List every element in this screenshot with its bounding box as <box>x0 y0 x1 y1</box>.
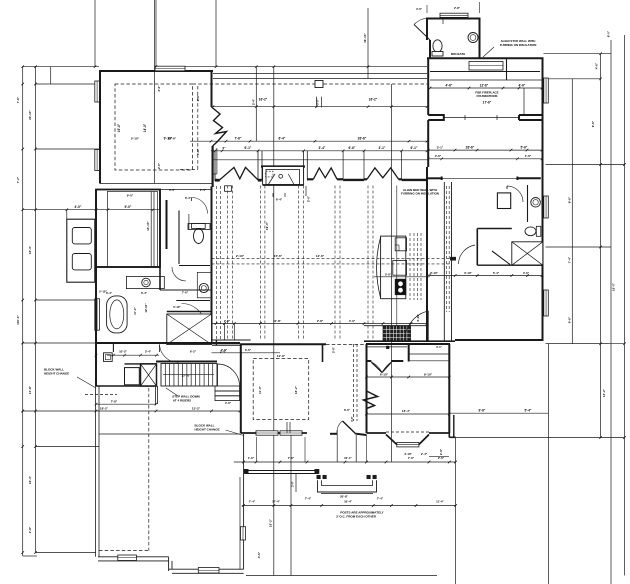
angled wall break zigzag <box>212 107 227 146</box>
svg-text:3'-0": 3'-0" <box>316 98 320 105</box>
dining right wall <box>322 344 324 362</box>
right tick y247 <box>546 246 612 248</box>
range hatched <box>383 326 410 342</box>
svg-text:16'-10": 16'-10" <box>363 33 367 43</box>
left margin tick y149 <box>36 148 100 150</box>
mud dashed roofline <box>85 394 117 396</box>
svg-text:10'-1": 10'-1" <box>344 456 352 460</box>
svg-text:2'-10": 2'-10" <box>236 254 245 258</box>
grid line top v4 <box>367 8 369 79</box>
svg-text:100'-4": 100'-4" <box>16 315 20 325</box>
mbath shelf <box>188 224 210 230</box>
svg-text:15'-2": 15'-2" <box>192 407 201 411</box>
svg-text:2'-0": 2'-0" <box>291 480 295 486</box>
gr dim row y323 <box>212 323 428 325</box>
bay window <box>386 435 397 445</box>
kitchen dashed cabinets <box>409 233 411 300</box>
eave line 1 <box>213 73 427 75</box>
mud cell walls <box>125 363 157 365</box>
svg-text:2'-6": 2'-6" <box>438 456 445 460</box>
top wall window <box>155 66 185 71</box>
fireplace <box>261 165 305 167</box>
band window 1 <box>215 179 220 182</box>
svg-text:4'-1": 4'-1" <box>436 345 443 349</box>
stair arrow <box>163 374 214 376</box>
dim row y141 <box>190 140 427 142</box>
bed2 door arc 2 <box>458 245 475 264</box>
kitchen sink box <box>395 238 406 251</box>
svg-text:11'-4": 11'-4" <box>436 500 444 504</box>
bath2 toilet <box>536 226 541 236</box>
svg-text:2'-4": 2'-4" <box>421 452 428 456</box>
patio right window <box>241 527 246 540</box>
svg-text:2'-4": 2'-4" <box>252 98 256 105</box>
bottom-right v grid 1 <box>455 438 457 584</box>
svg-text:9'-6": 9'-6" <box>591 120 595 127</box>
bath2 walls L <box>477 228 512 230</box>
joist dashed pair B <box>259 186 261 341</box>
right wing bottom wall ext <box>546 343 609 345</box>
svg-text:10'-8": 10'-8" <box>273 319 281 323</box>
small steps <box>215 386 240 391</box>
svg-text:6'-4": 6'-4" <box>185 196 192 200</box>
svg-text:HEIGHT CHANGE: HEIGHT CHANGE <box>44 371 69 375</box>
top-left room bottom dbl <box>100 183 212 185</box>
bed2 closet <box>497 193 510 209</box>
porch step outer <box>318 480 377 492</box>
svg-text:3'-4": 3'-4" <box>319 146 326 150</box>
patio left wall <box>95 386 97 557</box>
svg-text:9'-0": 9'-0" <box>125 205 132 209</box>
left margin tick y411 <box>23 410 240 412</box>
right margin edge line <box>624 35 626 576</box>
svg-text:16'-0": 16'-0" <box>117 123 121 132</box>
svg-text:9'-0": 9'-0" <box>127 194 134 198</box>
grid line top v3 <box>215 0 217 67</box>
bay dim <box>429 456 449 458</box>
svg-text:3'-4": 3'-4" <box>220 349 227 353</box>
wall seg left of door <box>330 433 338 435</box>
mbath vanity <box>126 276 164 288</box>
top-left room left wall <box>99 70 101 184</box>
left wall x96 lower <box>95 190 97 344</box>
bottom v dim 2 <box>290 434 292 576</box>
oven cabinet <box>67 219 95 282</box>
svg-text:8'-6": 8'-6" <box>568 196 572 203</box>
svg-text:9'-6": 9'-6" <box>568 316 572 323</box>
svg-text:5'-10": 5'-10" <box>173 305 181 309</box>
right tick y164 <box>546 164 625 166</box>
svg-text:2'-0": 2'-0" <box>439 448 443 455</box>
svg-text:3'-6": 3'-6" <box>245 348 252 352</box>
left margin tick y446 <box>36 446 100 448</box>
svg-text:FOUNDATIONS: FOUNDATIONS <box>477 94 498 98</box>
door diagonal patio <box>343 421 357 434</box>
great room dashed h pair <box>212 258 453 260</box>
svg-text:HEIGHT CHANGE: HEIGHT CHANGE <box>195 428 220 432</box>
wing stub wall left y115 <box>428 115 444 120</box>
svg-text:10'-8": 10'-8" <box>28 385 32 394</box>
nook left zigzag <box>364 391 378 409</box>
svg-text:4'-10": 4'-10" <box>416 313 420 321</box>
svg-text:15'-6": 15'-6" <box>168 137 177 141</box>
svg-text:5'-4": 5'-4" <box>493 271 500 275</box>
svg-text:12'-6": 12'-6" <box>480 84 489 88</box>
svg-text:3' O.C. FROM EACH OTHER: 3' O.C. FROM EACH OTHER <box>336 515 377 519</box>
post square on roofline <box>315 81 323 88</box>
porch v dim <box>295 474 297 493</box>
left margin tick y208 <box>23 209 67 211</box>
svg-text:5'-10": 5'-10" <box>131 137 140 141</box>
left margin tick y552 <box>36 552 97 554</box>
left margin dim line A <box>22 66 24 556</box>
note leader line <box>483 47 494 57</box>
svg-text:2'-4": 2'-4" <box>200 188 207 192</box>
svg-text:3'-4": 3'-4" <box>145 349 152 353</box>
svg-text:14'-2": 14'-2" <box>602 388 606 397</box>
svg-text:7'-4": 7'-4" <box>249 500 256 504</box>
kitchen box 2 <box>393 261 407 276</box>
svg-text:7'-6": 7'-6" <box>408 456 415 460</box>
top dim line y66 extension <box>156 66 427 68</box>
joist dashed pair A <box>227 186 229 341</box>
tub window <box>95 299 100 331</box>
svg-text:7'-2": 7'-2" <box>16 176 20 183</box>
top-left dashed ceiling box <box>115 84 193 170</box>
nook dashed bay line <box>386 431 429 433</box>
svg-text:6'-10": 6'-10" <box>380 373 389 377</box>
wing stub thin lines <box>444 117 519 119</box>
mbath door arc <box>182 303 206 325</box>
band wall right <box>402 179 428 181</box>
stair door arc <box>217 364 219 386</box>
svg-text:4'-6": 4'-6" <box>435 154 442 158</box>
right wing right wall <box>542 58 544 341</box>
svg-text:4'-6": 4'-6" <box>225 401 232 405</box>
svg-text:17'-4": 17'-4" <box>272 500 280 504</box>
wing stub wall right y177 <box>517 177 540 179</box>
stair top wall <box>156 361 217 363</box>
svg-text:7'-6": 7'-6" <box>288 456 295 460</box>
svg-text:6'-4": 6'-4" <box>276 198 283 202</box>
svg-text:16'-4": 16'-4" <box>28 475 32 484</box>
oven dim row <box>67 209 160 211</box>
svg-text:6'-0": 6'-0" <box>344 408 351 412</box>
svg-text:19'-0": 19'-0" <box>265 221 269 230</box>
right wing left wall mid <box>427 120 429 167</box>
bath2 shower xbox <box>512 242 543 265</box>
svg-text:2'-8": 2'-8" <box>28 526 32 533</box>
svg-text:16'-2": 16'-2" <box>269 518 273 527</box>
right wall window 2 <box>544 196 549 218</box>
svg-text:8'-0": 8'-0" <box>607 30 611 37</box>
svg-text:5'-0": 5'-0" <box>385 272 392 276</box>
svg-text:5'-6": 5'-6" <box>521 146 528 150</box>
mud cell 1 <box>125 368 140 385</box>
svg-text:10'-2": 10'-2" <box>119 349 127 353</box>
nook top wall <box>366 343 450 345</box>
right wall window 1 <box>544 78 549 103</box>
svg-text:6'-6": 6'-6" <box>349 146 356 150</box>
corridor wall lower <box>212 344 241 346</box>
wing dim row y150 <box>428 149 542 151</box>
patio inner dashed v <box>148 388 150 551</box>
3rd bath left wall <box>429 40 431 59</box>
v dim line x197 dashed <box>197 86 199 170</box>
closet inner vline <box>150 192 152 266</box>
svg-text:16'-2": 16'-2" <box>259 98 268 102</box>
patio bottom window <box>118 555 137 561</box>
dining windows <box>256 431 278 435</box>
svg-text:12'-6": 12'-6" <box>316 254 325 258</box>
bath2 door diag <box>492 251 510 265</box>
svg-text:16'-2": 16'-2" <box>294 385 298 394</box>
kitchen curved counter <box>377 237 381 298</box>
svg-text:13'-10": 13'-10" <box>146 221 150 231</box>
upper mid hline y106 <box>213 106 427 108</box>
svg-text:16'-0": 16'-0" <box>612 282 616 291</box>
dim row y462 <box>234 461 456 463</box>
dining top wall <box>240 343 326 345</box>
svg-text:23'-10": 23'-10" <box>28 110 32 120</box>
hall door arc right <box>405 311 428 341</box>
svg-text:FURRING ON INSULATION: FURRING ON INSULATION <box>401 192 439 196</box>
wing hall dashed pair <box>446 186 448 312</box>
wing dim row y275 <box>427 275 542 277</box>
porch rail upper <box>245 470 318 472</box>
svg-text:2'-8": 2'-8" <box>224 319 231 323</box>
right margin dim line B <box>600 54 602 438</box>
wing closet wall <box>430 71 540 73</box>
grid through room <box>154 0 156 184</box>
right tick y53 <box>544 53 612 55</box>
mud entry door arc <box>159 345 161 353</box>
top-left room top wall <box>99 70 213 72</box>
band jamb 2 <box>257 151 259 181</box>
band window 2 <box>307 178 313 180</box>
joist dashed pair C <box>298 186 300 341</box>
porch post left <box>244 469 248 473</box>
closet xbox <box>167 314 212 345</box>
svg-text:15'-6": 15'-6" <box>274 254 283 258</box>
3rd bath window top <box>440 13 468 17</box>
svg-text:2'-0": 2'-0" <box>157 162 161 169</box>
mud left wall <box>95 343 97 386</box>
svg-text:13'-10": 13'-10" <box>181 374 191 378</box>
wing hline y80 <box>430 79 542 81</box>
svg-text:17'-4": 17'-4" <box>133 307 137 315</box>
patio bottom wall <box>98 556 169 558</box>
bed2 door arc 1 <box>501 185 523 187</box>
svg-text:3'-4": 3'-4" <box>169 188 176 192</box>
left wall window 1 <box>95 81 100 102</box>
svg-text:26'-6": 26'-6" <box>466 146 475 150</box>
mud inner vwall <box>112 343 114 352</box>
svg-text:12'-10": 12'-10" <box>144 303 148 313</box>
svg-text:AT 4 RISERS: AT 4 RISERS <box>173 398 191 402</box>
dining bottom wall <box>241 432 307 434</box>
svg-text:7'-6": 7'-6" <box>16 96 20 103</box>
kitchen island rect <box>381 236 406 299</box>
bottom-right v grid 2 <box>548 344 550 584</box>
bottom long line <box>246 575 437 577</box>
svg-text:4'-6": 4'-6" <box>595 62 599 69</box>
svg-text:7'-6": 7'-6" <box>235 137 242 141</box>
svg-text:7'-4": 7'-4" <box>568 256 572 263</box>
left margin bottom tick <box>23 555 37 557</box>
svg-text:4'-6": 4'-6" <box>257 551 261 558</box>
top-left room right wall <box>211 71 213 107</box>
grid line top v2 <box>155 0 157 67</box>
svg-text:7'-8": 7'-8" <box>111 399 118 403</box>
3rd bath door leaf <box>414 25 430 41</box>
left margin tick y84 <box>36 83 100 85</box>
right wing bottom wall <box>455 339 544 341</box>
svg-text:3'-1": 3'-1" <box>379 146 386 150</box>
dining dashed ceiling <box>253 359 309 420</box>
nook post y347 <box>387 346 389 348</box>
svg-text:6'-1": 6'-1" <box>411 146 418 150</box>
right margin dim line C <box>610 40 612 584</box>
patio inner dashed h <box>99 550 149 552</box>
washer box <box>104 353 113 362</box>
band window 3 <box>364 178 367 180</box>
band left jamb <box>212 146 214 187</box>
svg-text:2'-8": 2'-8" <box>317 319 324 323</box>
left margin dim line B <box>35 66 37 553</box>
svg-text:20'-8": 20'-8" <box>340 495 348 499</box>
svg-text:11'-0": 11'-0" <box>258 385 262 394</box>
porch post pair 2 <box>367 475 371 479</box>
bath2 left wall <box>527 185 529 222</box>
bottom v dim 1 <box>273 420 275 576</box>
post small below band <box>225 186 232 192</box>
dashed wall to nook <box>326 344 366 346</box>
mbath walls y268 <box>96 266 160 268</box>
svg-text:5'-10": 5'-10" <box>99 290 107 294</box>
right wall window 3 <box>544 290 549 316</box>
joist dashed pair E <box>367 186 369 341</box>
3rd bath walls <box>427 19 480 59</box>
svg-text:9'-10": 9'-10" <box>424 373 433 377</box>
right wing left wall upper <box>427 59 429 115</box>
patio step wall <box>168 557 170 571</box>
svg-text:2'-8": 2'-8" <box>454 6 461 10</box>
svg-text:3'-10": 3'-10" <box>464 271 472 275</box>
right tick y78 <box>546 78 601 80</box>
gr dashed pair left <box>216 186 218 340</box>
mbath toilet <box>192 223 206 228</box>
patio bottom wall 2 <box>169 568 244 570</box>
nook french doors <box>371 362 382 373</box>
staircase treads <box>161 364 217 387</box>
svg-text:14'-0": 14'-0" <box>143 123 147 132</box>
svg-text:9'-6": 9'-6" <box>479 409 486 413</box>
band wall mid <box>343 179 364 181</box>
wing closet shelf <box>469 62 503 71</box>
svg-text:4'-6": 4'-6" <box>446 84 453 88</box>
upper mid vline 1 <box>255 67 257 142</box>
oven 2 <box>72 254 91 270</box>
patio h line y434 <box>99 433 241 435</box>
mbath divider walls <box>178 210 180 264</box>
left wall window 2 <box>95 150 100 171</box>
closet room inner rect <box>107 191 157 266</box>
wing stub wall left y177 <box>427 177 442 179</box>
svg-text:1'-6": 1'-6" <box>248 456 255 460</box>
dimension tick marks <box>210 140 213 143</box>
range surround <box>364 325 428 327</box>
svg-text:17'-6": 17'-6" <box>483 101 492 105</box>
grid v x391 <box>390 84 392 462</box>
svg-text:4'-0": 4'-0" <box>349 319 356 323</box>
patio dashed pair <box>353 344 355 421</box>
bath2 sink <box>531 198 541 208</box>
kitchen wall right <box>426 167 428 341</box>
svg-text:16'-4": 16'-4" <box>28 245 32 254</box>
porch post right <box>315 469 319 473</box>
dashed roof line top <box>193 83 428 85</box>
bottom-right h dim <box>450 412 549 414</box>
svg-text:12'-0": 12'-0" <box>277 354 286 358</box>
svg-text:4'-0": 4'-0" <box>75 205 82 209</box>
svg-text:FURRING ON INSULATION: FURRING ON INSULATION <box>500 43 537 47</box>
svg-text:2'-0": 2'-0" <box>307 195 311 202</box>
bath2 bottom wall <box>477 264 543 266</box>
svg-text:6'-4": 6'-4" <box>106 291 113 295</box>
svg-text:6'-4": 6'-4" <box>279 137 286 141</box>
left margin tick y343 <box>23 342 96 344</box>
joist dashed pair D <box>334 186 336 341</box>
nook bottom walls <box>367 432 387 434</box>
nook left wall <box>366 344 368 433</box>
corridor door arc <box>192 198 208 214</box>
svg-text:6'-1": 6'-1" <box>245 146 252 150</box>
patio right wall <box>243 434 245 569</box>
svg-text:2'-0": 2'-0" <box>157 85 161 92</box>
wing stub wall right y115 <box>519 115 543 120</box>
svg-text:3RD BATH: 3RD BATH <box>451 52 465 56</box>
mud bottom wall <box>96 385 156 387</box>
nook divider wall <box>408 345 410 362</box>
svg-text:5'-4": 5'-4" <box>525 409 532 413</box>
3rd bath sink <box>468 33 478 43</box>
kitchen cooktop <box>395 279 406 295</box>
right margin dim line A <box>571 79 573 344</box>
grid line top v1 <box>94 0 96 67</box>
svg-text:1'-6": 1'-6" <box>525 154 532 158</box>
nook right wall <box>448 344 450 433</box>
tub <box>107 296 128 333</box>
svg-text:16'-4": 16'-4" <box>402 409 411 413</box>
svg-text:6'-2": 6'-2" <box>190 349 197 353</box>
corridor jamb stubs <box>215 340 217 345</box>
mbath sink2 <box>199 283 208 292</box>
svg-text:26'-6": 26'-6" <box>358 137 367 141</box>
svg-text:6'-4": 6'-4" <box>141 291 148 295</box>
nook hline <box>367 346 407 348</box>
svg-text:16'-2": 16'-2" <box>369 98 378 102</box>
bottom-right h grid <box>456 437 625 439</box>
right tick y343 <box>546 343 625 345</box>
master bath region walls <box>159 190 161 291</box>
svg-text:2'-8": 2'-8" <box>332 346 336 353</box>
svg-text:4'-0": 4'-0" <box>416 7 423 11</box>
mud cell 2 xbox <box>141 364 157 386</box>
oven 1 <box>72 228 91 244</box>
porch post pair 1 <box>317 475 321 479</box>
corridor wall upper <box>212 339 251 341</box>
